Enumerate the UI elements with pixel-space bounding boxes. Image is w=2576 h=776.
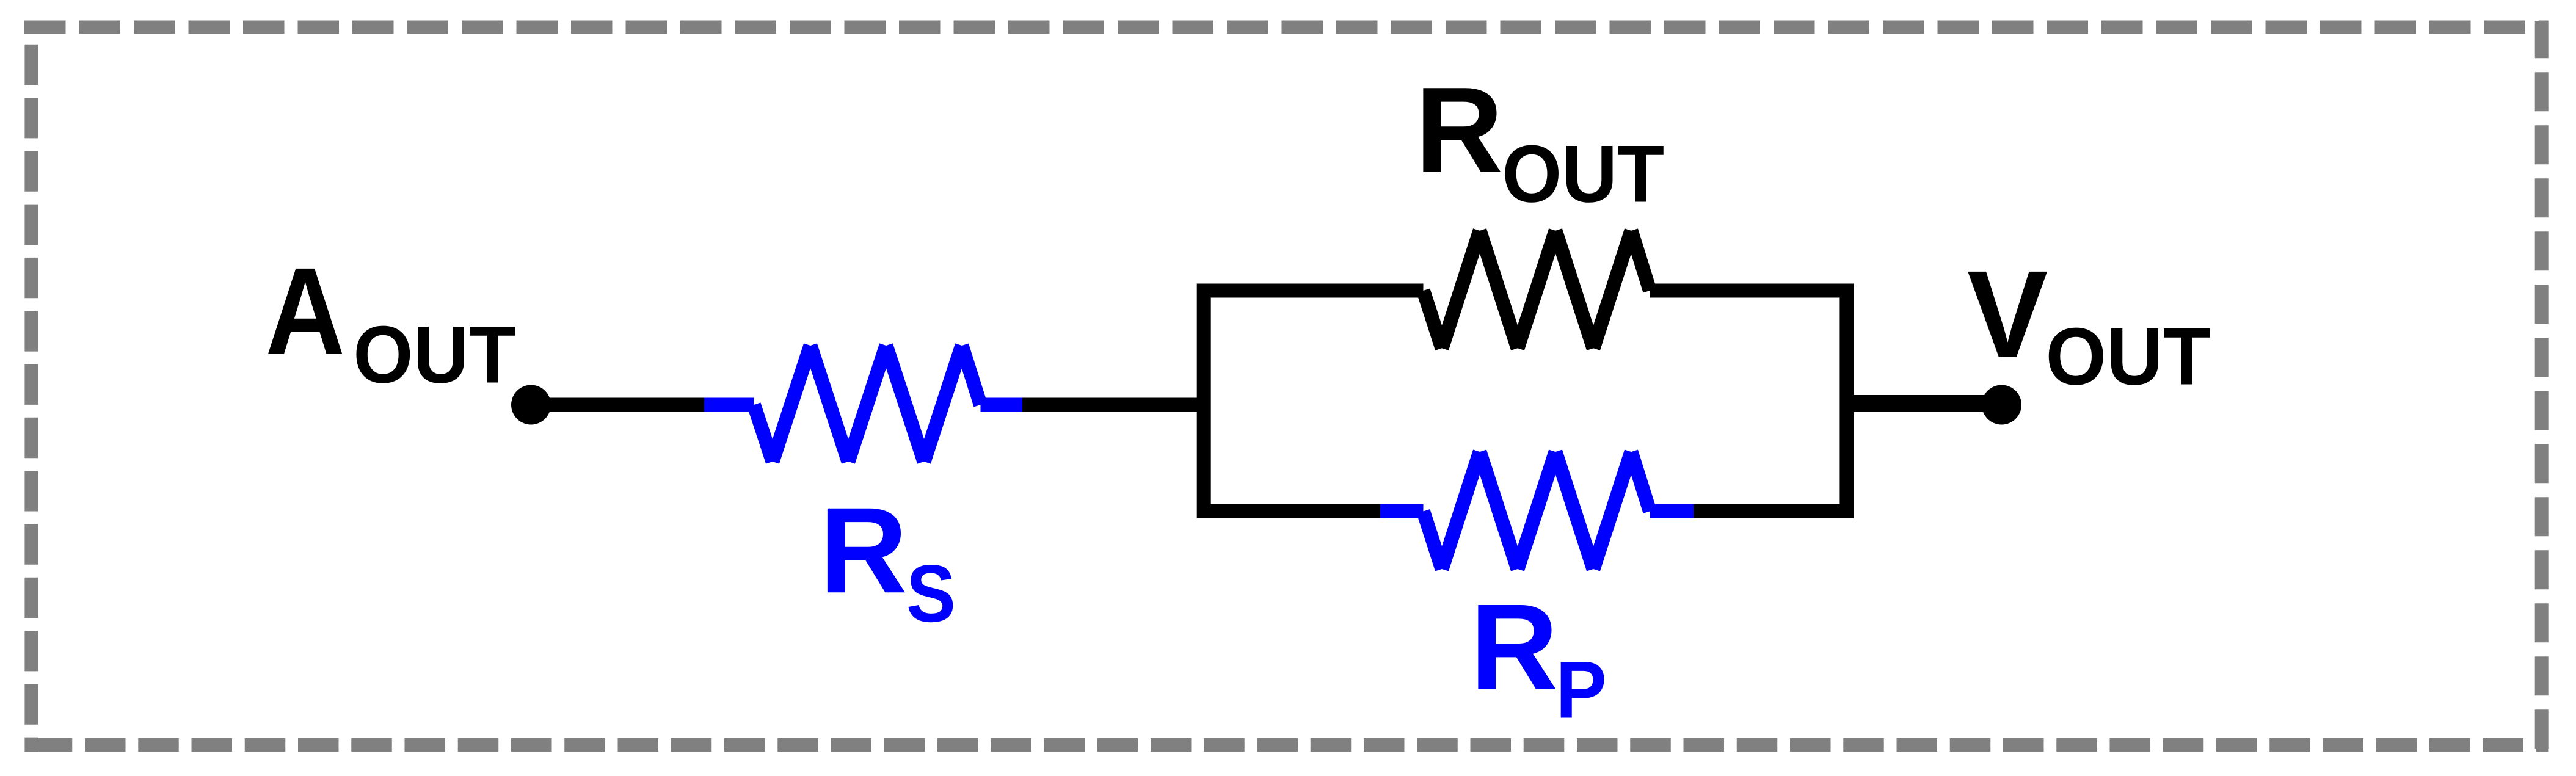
wire from parallel block to node V bbox=[1847, 398, 2002, 412]
resistor R_S (blue, series) bbox=[704, 346, 1022, 462]
svg-text:R: R bbox=[820, 482, 908, 618]
svg-text:R: R bbox=[1470, 579, 1558, 716]
parallel block right bar and branch wires bbox=[1650, 291, 1847, 512]
svg-text:OUT: OUT bbox=[2046, 312, 2211, 402]
svg-text:A: A bbox=[266, 242, 346, 381]
node A (input terminal dot) bbox=[511, 385, 551, 425]
resistor R_OUT (black, top branch) bbox=[1424, 231, 1650, 349]
dashed border top edge bbox=[24, 21, 2548, 34]
node V (output terminal dot) bbox=[1982, 385, 2021, 425]
parallel block left bar and branch wires bbox=[1204, 291, 1423, 512]
svg-text:R: R bbox=[1415, 62, 1503, 198]
resistor R_P (blue, bottom branch) bbox=[1380, 452, 1694, 569]
svg-text:P: P bbox=[1555, 645, 1607, 736]
svg-text:OUT: OUT bbox=[353, 310, 515, 401]
svg-text:V: V bbox=[1967, 245, 2048, 384]
svg-text:S: S bbox=[906, 549, 956, 639]
svg-text:OUT: OUT bbox=[1502, 129, 1664, 220]
dashed border bottom edge bbox=[24, 738, 2548, 752]
dashed border left edge bbox=[24, 21, 38, 752]
wire stub from parallel block mid to node V (upper overlap) bbox=[1847, 395, 2002, 409]
wire from R_S to parallel block bbox=[1022, 398, 1204, 412]
wire from node A to R_S bbox=[531, 398, 705, 412]
dashed border right edge bbox=[2535, 21, 2549, 752]
